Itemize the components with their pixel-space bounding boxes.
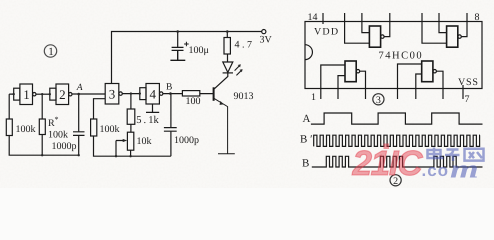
svg-text:100μ: 100μ: [189, 45, 209, 56]
svg-text:*: *: [55, 115, 59, 124]
svg-text:3: 3: [109, 86, 116, 101]
svg-text:5 . 1k: 5 . 1k: [136, 115, 159, 126]
svg-text:1: 1: [23, 87, 30, 102]
svg-text:100k: 100k: [100, 124, 120, 135]
svg-text:B: B: [302, 158, 309, 170]
svg-text:74HC00: 74HC00: [379, 51, 424, 62]
svg-text:14: 14: [308, 12, 318, 23]
svg-text:9013: 9013: [234, 91, 254, 102]
svg-text:21IC: 21IC: [352, 144, 424, 183]
svg-text:VSS: VSS: [458, 77, 479, 88]
svg-text:100k: 100k: [48, 130, 68, 141]
svg-text:1000p: 1000p: [52, 141, 77, 152]
svg-text:3V: 3V: [260, 35, 273, 46]
svg-text:VDD: VDD: [314, 27, 339, 38]
svg-text:3: 3: [376, 95, 381, 106]
svg-text:1000p: 1000p: [174, 135, 199, 146]
svg-text:A: A: [303, 113, 311, 125]
svg-text:7: 7: [465, 94, 470, 105]
svg-text:A: A: [76, 83, 83, 93]
svg-text:.co: .co: [422, 161, 450, 180]
svg-text:8: 8: [475, 12, 480, 23]
svg-text:100: 100: [186, 96, 201, 107]
svg-text:10k: 10k: [137, 136, 152, 147]
svg-text:100k: 100k: [16, 124, 36, 135]
svg-text:B: B: [166, 83, 172, 93]
svg-text:4 . 7: 4 . 7: [235, 40, 253, 51]
svg-text:B ′: B ′: [300, 134, 313, 146]
svg-text:2: 2: [59, 87, 66, 102]
svg-text:1: 1: [48, 46, 54, 58]
svg-text:4: 4: [150, 86, 157, 101]
svg-text:1: 1: [311, 92, 316, 103]
